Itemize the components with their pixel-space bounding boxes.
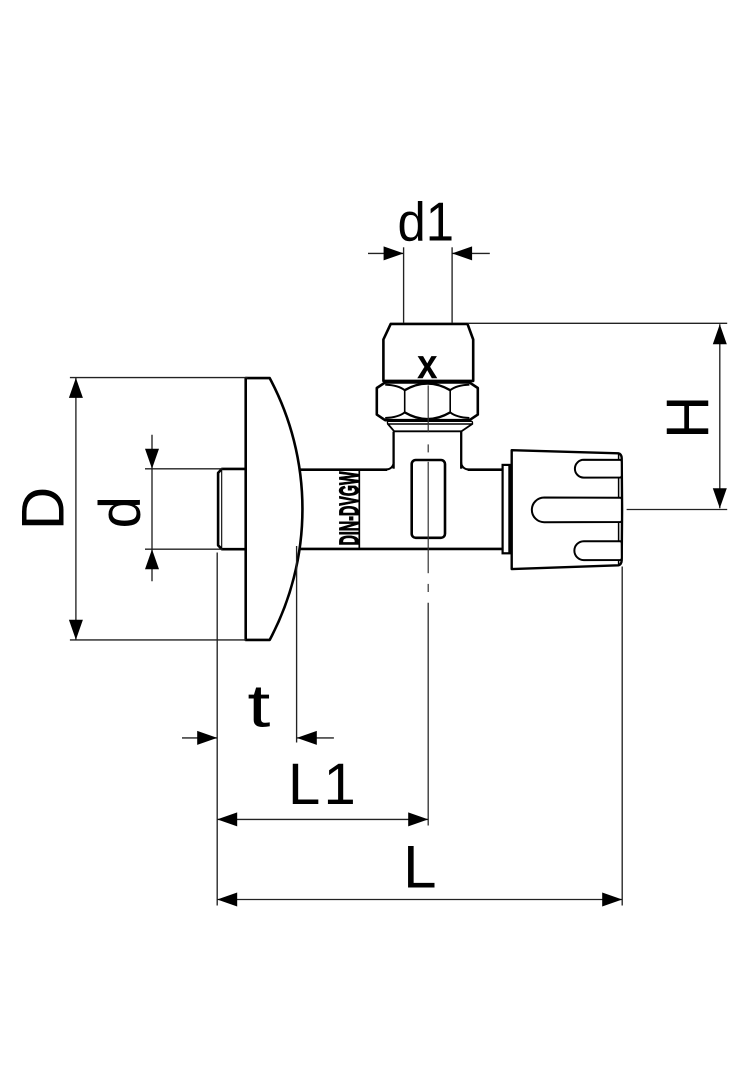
D bottom arrow bbox=[69, 620, 83, 640]
d top arrow bbox=[145, 449, 159, 469]
d1 left arrow bbox=[384, 246, 404, 260]
compression cap body bbox=[383, 324, 473, 381]
outlet pipe stub left line bbox=[403, 247, 405, 323]
L1 right arrow bbox=[408, 812, 428, 826]
L dimension line bbox=[217, 899, 622, 901]
L1 left arrow bbox=[217, 812, 237, 826]
valve body barrel bbox=[299, 469, 503, 551]
dimension d extension bottom bbox=[145, 548, 223, 550]
dimension D extension top bbox=[70, 377, 248, 379]
center axis chain line segments bbox=[427, 385, 429, 432]
t right extension line bbox=[296, 546, 298, 743]
dimension H extension bottom bbox=[627, 509, 728, 511]
svg-text:d: d bbox=[88, 496, 153, 528]
handle collar bbox=[503, 465, 510, 553]
body top edge right segment bbox=[468, 468, 503, 471]
outlet pipe stub right line bbox=[451, 247, 453, 323]
centerline long extension to L1 arrow bbox=[427, 603, 429, 826]
nut center facet top arc bbox=[405, 384, 451, 391]
marking x on cap bbox=[417, 356, 437, 378]
nut facet line left bbox=[404, 390, 406, 413]
wall rosette bell bbox=[246, 378, 303, 640]
L left arrow bbox=[217, 893, 237, 907]
H top arrow bbox=[713, 324, 727, 344]
L1 dimension line bbox=[217, 818, 428, 820]
compression cone washer bbox=[388, 424, 473, 431]
dimension d extension top bbox=[145, 468, 223, 470]
svg-text:t: t bbox=[247, 673, 270, 739]
dimension H extension top bbox=[468, 322, 727, 324]
svg-text:D: D bbox=[10, 487, 77, 530]
svg-text:d1: d1 bbox=[398, 191, 455, 253]
L right extension line bbox=[621, 567, 623, 906]
H dimension line bbox=[719, 324, 721, 508]
D top arrow bbox=[69, 378, 83, 398]
DIN-DVGW band separator bbox=[358, 470, 360, 549]
svg-text:L1: L1 bbox=[288, 752, 359, 817]
t left arrow bbox=[197, 731, 217, 745]
handle knob body bbox=[512, 450, 622, 569]
svg-text:L: L bbox=[403, 833, 436, 900]
svg-text:H: H bbox=[655, 396, 722, 439]
riser neck bbox=[395, 431, 460, 471]
body top edge left segment bbox=[299, 468, 387, 471]
t right arrow bbox=[297, 731, 317, 745]
riser-body left fillet bbox=[387, 462, 394, 469]
DIN-DVGW marking bbox=[339, 472, 358, 545]
inlet pipe threaded tail bbox=[218, 469, 246, 549]
nut left facet arcs bbox=[385, 385, 405, 391]
compression nut hexagon bbox=[377, 382, 478, 420]
d dimension line bbox=[151, 435, 153, 582]
body bottom edge bbox=[299, 548, 503, 551]
knob bottom finger slot bbox=[574, 541, 621, 560]
riser-body right fillet bbox=[461, 462, 468, 469]
D dimension line bbox=[75, 378, 77, 640]
shared left extension line bbox=[216, 553, 218, 906]
d1 dimension line bbox=[368, 252, 403, 254]
nut center facet bottom arc bbox=[405, 412, 451, 419]
d1 right arrow bbox=[452, 246, 472, 260]
H bottom arrow bbox=[713, 488, 727, 508]
flat label rounded rectangle bbox=[412, 460, 445, 538]
knob middle finger slot bbox=[532, 498, 622, 523]
nut facet line right bbox=[449, 390, 451, 413]
knob top finger slot bbox=[575, 460, 622, 478]
thread chamfer line bbox=[221, 471, 223, 548]
t dimension line bbox=[182, 737, 217, 739]
nut right facet arcs bbox=[450, 385, 469, 391]
thin washer ring bbox=[387, 421, 472, 424]
d bottom arrow bbox=[145, 549, 159, 569]
dimension D extension bottom bbox=[70, 639, 246, 641]
knob front face edge bbox=[618, 454, 620, 565]
L right arrow bbox=[602, 893, 622, 907]
